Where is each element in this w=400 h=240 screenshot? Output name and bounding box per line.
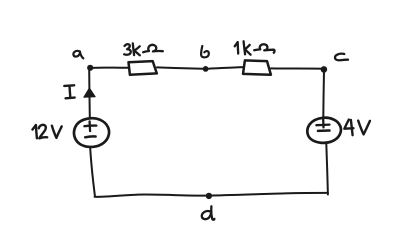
label 12V xyxy=(33,125,62,138)
label 4V xyxy=(344,120,370,136)
resistor R1 3kΩ xyxy=(129,61,157,75)
label b xyxy=(201,46,209,57)
source V2 4V circle xyxy=(307,118,341,143)
wire right vertical bottom xyxy=(326,144,328,195)
wire V1 bottom to corner xyxy=(90,148,95,197)
V1 minus xyxy=(85,135,95,138)
resistor R2 1kΩ xyxy=(243,60,271,74)
wire a down to V1 xyxy=(88,70,91,118)
bottom wire xyxy=(95,193,328,197)
label c xyxy=(335,54,348,61)
wire c down to V2 xyxy=(322,71,325,117)
current arrow I xyxy=(84,88,95,97)
wire R2 to c xyxy=(271,67,322,69)
wire a to R1 xyxy=(93,67,129,69)
node c xyxy=(321,66,328,73)
node d xyxy=(206,193,212,199)
node a xyxy=(87,65,93,71)
label d xyxy=(202,206,215,219)
V2 plus xyxy=(316,119,329,128)
V2 minus xyxy=(318,129,330,132)
label 3kΩ xyxy=(124,43,163,55)
node b xyxy=(203,66,209,72)
label 1kΩ xyxy=(235,41,275,54)
V1 plus xyxy=(84,121,96,131)
label I xyxy=(64,85,74,98)
wire b to R2 xyxy=(209,67,244,69)
source V1 12V circle xyxy=(74,118,109,147)
label a xyxy=(73,51,83,58)
wire R1 to b xyxy=(157,67,203,68)
